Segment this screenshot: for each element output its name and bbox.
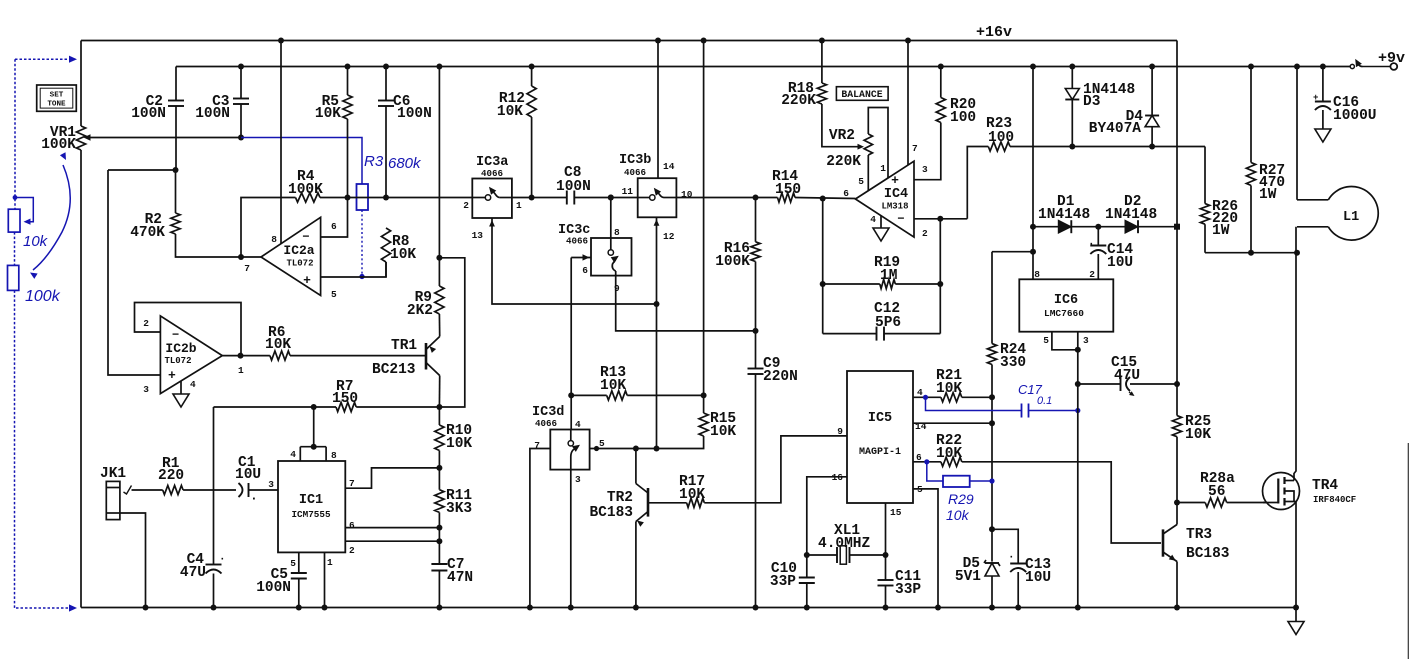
resistor R8 10K xyxy=(381,228,416,277)
wire C8 to IC3b pin11 xyxy=(574,197,637,199)
capacitor C6 100N xyxy=(378,64,432,198)
svg-text:BC183: BC183 xyxy=(1186,546,1230,562)
svg-text:10K: 10K xyxy=(936,381,962,397)
svg-text:5: 5 xyxy=(1043,335,1049,346)
wire TR3 collector xyxy=(1176,503,1178,525)
pin 3 label IC6 xyxy=(1083,335,1089,346)
annotation box BALANCE xyxy=(836,87,888,101)
annotation blue left margin line xyxy=(14,59,16,209)
capacitor C7 47N xyxy=(431,557,473,611)
pin 7 label IC1 xyxy=(349,478,355,489)
wire R22 to TR3 base xyxy=(962,462,1161,543)
wire IC4 pin2 xyxy=(914,218,967,220)
annotation blue curved arrow VR1 to 100k pot xyxy=(30,152,70,279)
pin 5 label IC4 xyxy=(858,176,864,187)
wire R2 bottom to IC2a output xyxy=(176,234,262,257)
svg-text:56: 56 xyxy=(1208,484,1225,500)
wire JK1 sleeve to ground xyxy=(120,513,149,611)
svg-text:220K: 220K xyxy=(781,93,816,109)
potentiometer VR1 100K xyxy=(41,125,85,153)
pin 6 label IC2a xyxy=(331,221,337,232)
junction R12 bottom / IC3a pin1 xyxy=(529,195,535,201)
svg-text:8: 8 xyxy=(614,227,620,238)
svg-text:10k: 10k xyxy=(946,507,970,523)
junction D3 bottom xyxy=(1069,144,1075,150)
ground IC2b pin4 xyxy=(173,381,189,407)
svg-text:−: − xyxy=(897,212,904,226)
wire R1 to C1 xyxy=(183,489,236,491)
pin 2 label IC4 xyxy=(922,228,928,239)
svg-text:10U: 10U xyxy=(1025,570,1051,586)
svg-text:100N: 100N xyxy=(556,179,591,195)
wire IC3c pin8 xyxy=(608,195,614,239)
pin 14 label IC5 xyxy=(915,421,927,432)
annotation blue pot 10k body xyxy=(8,209,20,232)
resistor R2 470K xyxy=(130,170,180,241)
wire IC3d pin7 to ground xyxy=(527,449,550,611)
diode D3 1N4148 xyxy=(1065,64,1135,147)
svg-text:10K: 10K xyxy=(936,446,962,462)
annotation blue pot 100k body xyxy=(8,265,19,290)
resistor R18 220K xyxy=(781,38,826,110)
svg-text:4: 4 xyxy=(190,379,196,390)
capacitor C1 10U xyxy=(235,455,278,506)
wire IC2b plus input riser xyxy=(108,170,160,375)
svg-text:47N: 47N xyxy=(447,570,473,586)
capacitor C10 33P xyxy=(770,555,815,611)
junction control node pins 13 12 xyxy=(654,301,660,307)
resistor R13 10K xyxy=(568,365,706,400)
pin 2 label IC1 xyxy=(349,545,355,556)
svg-text:TR2: TR2 xyxy=(607,490,633,506)
pin 3 label IC3d xyxy=(575,474,581,485)
svg-text:15: 15 xyxy=(890,507,902,518)
resistor R6 10K xyxy=(222,325,291,360)
svg-text:1: 1 xyxy=(880,163,886,174)
capacitor C9 220N xyxy=(748,331,798,611)
svg-text:5: 5 xyxy=(331,289,337,300)
svg-text:L1: L1 xyxy=(1343,210,1359,225)
wire R17 to IC5 pin9 xyxy=(704,436,847,503)
pin 7 label IC3d xyxy=(534,440,540,451)
svg-text:1M: 1M xyxy=(880,268,897,284)
wire IC1 pins 4 8 riser xyxy=(300,407,326,461)
pin 5 label IC3d xyxy=(599,438,605,449)
svg-text:1W: 1W xyxy=(1259,187,1277,203)
svg-text:JK1: JK1 xyxy=(100,466,126,482)
svg-text:14: 14 xyxy=(663,161,675,172)
svg-text:220: 220 xyxy=(158,468,184,484)
ground main rail end xyxy=(1288,608,1304,635)
wire left border (VR1 upper lead) xyxy=(80,41,82,127)
capacitor C15 47U xyxy=(1078,355,1177,396)
svg-text:BC213: BC213 xyxy=(372,362,416,378)
svg-text:·: · xyxy=(250,491,258,506)
svg-text:4066: 4066 xyxy=(566,236,588,247)
wire IC3b pin10 to R14 xyxy=(676,197,777,199)
wire IC3c pin9 xyxy=(616,276,756,331)
svg-text:4066: 4066 xyxy=(624,167,646,178)
svg-text:680k: 680k xyxy=(388,155,422,172)
svg-text:3: 3 xyxy=(1083,335,1089,346)
svg-text:4: 4 xyxy=(575,419,581,430)
pin 8 label IC3c xyxy=(614,227,620,238)
wire IC6 pin5 xyxy=(1052,332,1078,350)
svg-text:10U: 10U xyxy=(1107,255,1133,271)
capacitor C12 5P6 xyxy=(823,301,941,341)
pin 3 label IC4 xyxy=(922,164,928,175)
svg-text:100N: 100N xyxy=(397,106,432,122)
annotation blue line between pots xyxy=(14,232,16,265)
pin 4 label IC4 xyxy=(870,214,876,225)
svg-text:VR2: VR2 xyxy=(829,128,855,144)
svg-text:·: · xyxy=(1088,239,1095,251)
junction pin12 at pin5 line xyxy=(654,446,660,452)
wire IC3a pin13 control xyxy=(489,218,656,304)
wire TR4 drain to L1 xyxy=(1294,227,1296,481)
wire TR3 emitter to ground xyxy=(1174,562,1180,611)
svg-text:5: 5 xyxy=(858,176,864,187)
svg-text:100: 100 xyxy=(988,130,1014,146)
resistor R23 100 xyxy=(986,116,1205,151)
resistor R27 470 1W xyxy=(1246,64,1285,253)
wire TR2 collector xyxy=(635,449,637,484)
pin 9 label IC3c xyxy=(614,283,620,294)
svg-text:−: − xyxy=(172,328,179,342)
junction L1 drop at R26 line xyxy=(1294,250,1300,256)
wire IC4 pin2 to R23 xyxy=(967,147,988,219)
svg-text:10k: 10k xyxy=(23,233,49,250)
junction C4 ground xyxy=(211,605,217,611)
diode D2 1N4148 xyxy=(1098,194,1177,233)
svg-text:7: 7 xyxy=(912,143,918,154)
svg-text:470K: 470K xyxy=(130,225,165,241)
op-amp IC4 LM318 xyxy=(855,161,914,237)
analog switch IC3a 4066 xyxy=(472,155,512,218)
svg-text:3: 3 xyxy=(143,384,149,395)
mosfet TR4 IRF840CF xyxy=(1263,473,1357,510)
junction R27 bottom xyxy=(1248,250,1254,256)
svg-text:100K: 100K xyxy=(715,254,750,270)
svg-text:47U: 47U xyxy=(180,565,206,581)
svg-text:LMC7660: LMC7660 xyxy=(1044,308,1084,319)
resistor R14 150 xyxy=(772,169,801,202)
ic IC1 ICM7555 xyxy=(278,461,345,552)
svg-text:+: + xyxy=(303,273,311,288)
resistor R12 10K xyxy=(497,64,536,198)
resistor R25 10K xyxy=(1172,384,1211,503)
svg-text:11: 11 xyxy=(622,186,634,197)
svg-text:1N4148: 1N4148 xyxy=(1038,207,1090,223)
wire R7 rail xyxy=(214,406,337,408)
svg-text:4: 4 xyxy=(290,449,296,460)
pin 12 label IC3b xyxy=(663,231,675,242)
resistor R20 100 xyxy=(936,64,976,127)
svg-text:LM318: LM318 xyxy=(881,202,908,212)
wire IC4 output drop xyxy=(822,199,824,334)
svg-text:2: 2 xyxy=(463,200,469,211)
wire R11 bottom to C7 xyxy=(436,512,442,564)
wire IC5 pin15 to XL1 xyxy=(885,503,887,555)
svg-text:SET: SET xyxy=(50,92,64,100)
pin 3 label IC2b xyxy=(143,384,149,395)
resistor R22 10K xyxy=(913,433,962,466)
junction IC1 supply tap xyxy=(311,404,317,410)
svg-text:9: 9 xyxy=(837,426,843,437)
pin 1 label IC1 xyxy=(327,557,333,568)
wire right border +16v drop xyxy=(1176,41,1178,385)
svg-text:1: 1 xyxy=(238,365,244,376)
svg-text:100K: 100K xyxy=(41,137,76,153)
svg-text:BY407A: BY407A xyxy=(1089,121,1142,137)
capacitor C16 1000U xyxy=(1313,64,1377,130)
wire IC4 pin7 to +16v xyxy=(905,38,911,166)
svg-text:1W: 1W xyxy=(1212,223,1230,239)
wire IC3c pin6 control xyxy=(571,254,591,429)
resistor R26 220 1W xyxy=(1200,147,1238,253)
svg-text:6: 6 xyxy=(331,221,337,232)
wire R4 to IC3a pin2 xyxy=(320,197,472,199)
pin 7 label IC2a xyxy=(244,263,250,274)
wire bottom ground rail xyxy=(81,607,1296,609)
svg-text:10K: 10K xyxy=(265,337,291,353)
wire JK1 tip contact xyxy=(124,486,163,495)
wire VR2 top to IC4 pin1 xyxy=(868,108,888,179)
svg-text:150: 150 xyxy=(775,182,801,198)
pin 2 label IC6 xyxy=(1089,269,1095,280)
svg-text:10K: 10K xyxy=(446,436,472,452)
svg-text:2: 2 xyxy=(1089,269,1095,280)
annotation blue wire to top border xyxy=(15,56,77,63)
svg-text:5V1: 5V1 xyxy=(955,569,981,585)
svg-text:IC2a: IC2a xyxy=(283,243,314,258)
analog switch IC3b 4066 xyxy=(619,153,676,217)
wire IC5 pin16 to XL1 xyxy=(807,477,847,555)
capacitor C11 33P xyxy=(878,555,922,611)
resistor R28a 56 xyxy=(1177,471,1278,507)
junction D2 cathode xyxy=(1174,224,1180,230)
wire node to D5 xyxy=(991,397,993,529)
junction IC4 output node xyxy=(820,196,826,202)
ic IC5 MAGPI-1 xyxy=(847,371,913,503)
capacitor C4 47U xyxy=(180,407,226,608)
wire TR1 bypass loop xyxy=(439,258,464,407)
svg-text:+16v: +16v xyxy=(976,24,1012,41)
annotation box SET TONE xyxy=(37,85,77,111)
svg-text:BC183: BC183 xyxy=(589,505,633,521)
wire IC4 pin3 to R20 xyxy=(914,123,941,180)
wire TR4 source to ground xyxy=(1293,502,1299,611)
svg-text:TR4: TR4 xyxy=(1312,478,1338,494)
pin 6 label IC4 xyxy=(843,188,849,199)
wire IC6 pin3 xyxy=(1075,332,1081,611)
pin 6 label IC3c xyxy=(582,265,588,276)
resistor R1 220 xyxy=(158,456,184,495)
junction IC1 pin7 node xyxy=(436,465,442,471)
pin 10 label IC3b xyxy=(681,189,693,200)
junction IC2b output xyxy=(238,353,244,359)
pin 13 label IC3a xyxy=(472,230,484,241)
svg-text:150: 150 xyxy=(332,391,358,407)
svg-text:6: 6 xyxy=(582,265,588,276)
svg-text:·: · xyxy=(1008,552,1015,564)
capacitor C3 100N xyxy=(195,67,249,138)
svg-text:10K: 10K xyxy=(1185,427,1211,443)
svg-text:100N: 100N xyxy=(131,106,166,122)
junction D1 anode xyxy=(1030,224,1036,230)
junction C3 bottom / VR1 wiper xyxy=(238,135,244,141)
wire IC1 pin7 to R10 node xyxy=(345,468,439,488)
diode D4 BY407A xyxy=(1089,64,1159,147)
annotation blue wire to bottom border xyxy=(16,604,77,611)
svg-text:MAGPI-1: MAGPI-1 xyxy=(859,447,901,458)
pin 14 label IC3b xyxy=(663,161,675,172)
pin 11 label IC3b xyxy=(622,186,634,197)
svg-text:8: 8 xyxy=(271,234,277,245)
resistor R7 150 xyxy=(332,379,439,412)
svg-text:4: 4 xyxy=(917,387,923,398)
pin 2 label IC3a xyxy=(463,200,469,211)
svg-text:+: + xyxy=(1313,93,1318,103)
junction R16 bottom xyxy=(753,328,759,334)
svg-text:IRF840CF: IRF840CF xyxy=(1313,495,1356,505)
ground IC4 pin4 xyxy=(873,216,889,241)
capacitor C14 10U xyxy=(1088,227,1133,280)
resistor R19 1M xyxy=(823,255,944,289)
svg-text:47U: 47U xyxy=(1114,368,1140,384)
potentiometer VR2 220K xyxy=(822,104,873,170)
svg-text:100k: 100k xyxy=(25,288,61,305)
pin 3 label IC1 xyxy=(268,479,274,490)
pin 8 label IC2a xyxy=(271,234,277,245)
junction R19 left xyxy=(820,281,826,287)
svg-text:4066: 4066 xyxy=(481,168,503,179)
svg-text:TL072: TL072 xyxy=(286,259,313,269)
junction C15 left xyxy=(1075,381,1081,387)
svg-text:1N4148: 1N4148 xyxy=(1105,207,1157,223)
junction pin14 node xyxy=(989,420,995,426)
svg-text:3K3: 3K3 xyxy=(446,501,472,517)
wire VR2 bottom to IC4 pin5 xyxy=(867,155,869,191)
resistor R15 10K xyxy=(590,411,737,449)
svg-text:10K: 10K xyxy=(710,424,736,440)
resistor R29 10k (blue) xyxy=(924,459,994,523)
diode D1 1N4148 xyxy=(1033,194,1098,233)
junction C3 top on +9v rail xyxy=(238,64,244,70)
wire IC2a pin6 input xyxy=(321,198,348,238)
annotation blue lower margin line xyxy=(15,290,17,608)
svg-text:2: 2 xyxy=(143,318,149,329)
wire IC5 pin5 to ground xyxy=(913,489,941,611)
op-amp IC2b TL072 xyxy=(160,316,222,394)
svg-text:IC1: IC1 xyxy=(299,493,323,508)
resistor R5 10K xyxy=(315,64,352,198)
svg-text:220K: 220K xyxy=(826,154,861,170)
wire R4 left branch xyxy=(241,198,296,258)
wire IC3a pin1 to C8 xyxy=(512,197,567,199)
svg-text:IC2b: IC2b xyxy=(165,341,196,356)
annotation blue label 10k xyxy=(23,233,49,250)
annotation blue wire VR1 wiper to R3 xyxy=(241,138,362,185)
wire R14 to IC4 pin6 xyxy=(795,198,855,199)
wire IC5 pin14 xyxy=(913,422,992,424)
pin 7 label IC4 xyxy=(912,143,918,154)
transistor TR1 BC213 xyxy=(372,337,440,379)
svg-text:+9v: +9v xyxy=(1378,50,1405,67)
svg-text:R3: R3 xyxy=(364,153,384,170)
wire IC1 pin2 xyxy=(345,540,439,542)
junction R7 / R10 node xyxy=(436,404,442,410)
label +16v xyxy=(976,24,1012,41)
junction TR2 collector node xyxy=(633,446,639,452)
svg-text:4066: 4066 xyxy=(535,418,557,429)
svg-text:2K2: 2K2 xyxy=(407,303,433,319)
junction C14 top xyxy=(1095,224,1101,230)
wire R10 bottom xyxy=(438,451,440,490)
resistor R3 680k (blue) xyxy=(357,153,423,210)
svg-text:2: 2 xyxy=(922,228,928,239)
wire IC2b feedback loop xyxy=(135,303,242,356)
resistor R17 10K xyxy=(648,474,705,507)
svg-text:1000U: 1000U xyxy=(1333,108,1377,124)
svg-text:100K: 100K xyxy=(288,182,323,198)
pin 15 label IC5 xyxy=(890,507,902,518)
wire R6 to TR1 base xyxy=(290,355,426,357)
junction R25 bottom TR3 collector xyxy=(1174,500,1180,506)
svg-text:IC4: IC4 xyxy=(884,187,908,202)
wire scan artifact right margin xyxy=(1407,443,1409,659)
ic IC6 LMC7660 xyxy=(1019,279,1113,331)
svg-text:4: 4 xyxy=(870,214,876,225)
wire IC3b pin12 control xyxy=(654,217,660,448)
capacitor C17 0.1 (blue) xyxy=(923,382,1081,418)
svg-text:10U: 10U xyxy=(235,467,261,483)
svg-text:BALANCE: BALANCE xyxy=(841,89,882,100)
wire IC3d pin3 to ground xyxy=(568,470,574,611)
junction C13 branch xyxy=(989,526,995,532)
resistor R16 100K xyxy=(715,198,760,331)
capacitor C8 100N xyxy=(556,165,591,205)
junction C8 pin11 node xyxy=(608,195,614,201)
pin 4 label IC1 xyxy=(290,449,296,460)
wire R19 right drop xyxy=(939,219,941,334)
resistor R10 10K xyxy=(435,407,473,452)
wire IC1 pin1 to ground xyxy=(322,552,328,610)
resistor R9 2K2 xyxy=(407,286,444,337)
wire R26 bottom line xyxy=(1205,252,1297,254)
switch S1 on +9v xyxy=(1350,59,1397,70)
wire +16v top border rail xyxy=(81,40,1177,42)
svg-text:220N: 220N xyxy=(763,369,798,385)
junction R21 R24 node xyxy=(989,394,995,400)
pin 8 label IC1 xyxy=(331,450,337,461)
svg-text:3: 3 xyxy=(575,474,581,485)
pin 2 label IC2b xyxy=(143,318,149,329)
wire IC2a pin8 to +16v xyxy=(278,38,284,244)
svg-text:3: 3 xyxy=(922,164,928,175)
svg-text:33P: 33P xyxy=(895,582,921,598)
svg-text:IC5: IC5 xyxy=(868,411,892,426)
pin 4 label IC5 xyxy=(917,387,923,398)
pin 4 label IC3d xyxy=(575,419,581,430)
svg-text:TR1: TR1 xyxy=(391,338,417,354)
svg-text:330: 330 xyxy=(1000,355,1026,371)
wire C2 bottom to R2 top xyxy=(108,167,179,173)
svg-text:IC6: IC6 xyxy=(1054,293,1078,308)
transistor TR3 BC183 xyxy=(1163,525,1230,563)
svg-text:13: 13 xyxy=(472,230,484,241)
pin 5 label IC5 xyxy=(917,484,923,495)
